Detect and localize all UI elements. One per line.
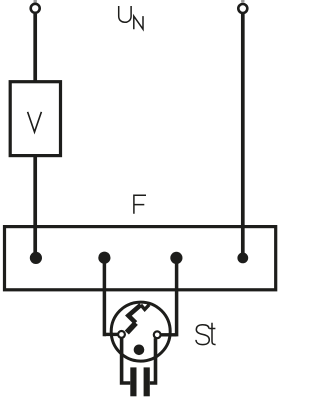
- plug prong right: [144, 367, 150, 396]
- terminal circle left: [31, 4, 40, 13]
- plug outline circle St: [111, 302, 170, 361]
- terminal circle right: [238, 4, 247, 13]
- label V: [28, 112, 42, 132]
- gray stub above left terminal: [34, 0, 37, 3]
- label F: [134, 195, 146, 214]
- wire voltmeter to node dot1: [33, 157, 37, 254]
- wire right terminal to node dot4: [241, 14, 245, 254]
- node dot1: [30, 252, 42, 264]
- plug body outline left: [122, 338, 131, 383]
- label St: [196, 323, 216, 345]
- plug pilot dot: [134, 345, 145, 356]
- label U_N: [119, 6, 143, 29]
- wire dot3 down to plug stub: [175, 258, 179, 336]
- plug prong left: [130, 367, 136, 396]
- plug body outline right: [150, 338, 156, 383]
- plug contact circle left: [118, 331, 125, 338]
- plug contact circle right: [154, 331, 161, 338]
- node dot2: [98, 252, 110, 264]
- gray stub above right terminal: [241, 0, 244, 3]
- node dot4: [237, 253, 248, 264]
- voltmeter V1 box: [10, 82, 60, 156]
- protective earth flash: [127, 323, 136, 333]
- fuse box F: [5, 227, 276, 290]
- stub wire to right contact: [161, 333, 176, 336]
- node dot3: [170, 252, 182, 264]
- wire left terminal to voltmeter: [33, 14, 37, 81]
- wire dot2 down to plug stub: [103, 258, 107, 336]
- stub wire to left contact: [104, 333, 117, 336]
